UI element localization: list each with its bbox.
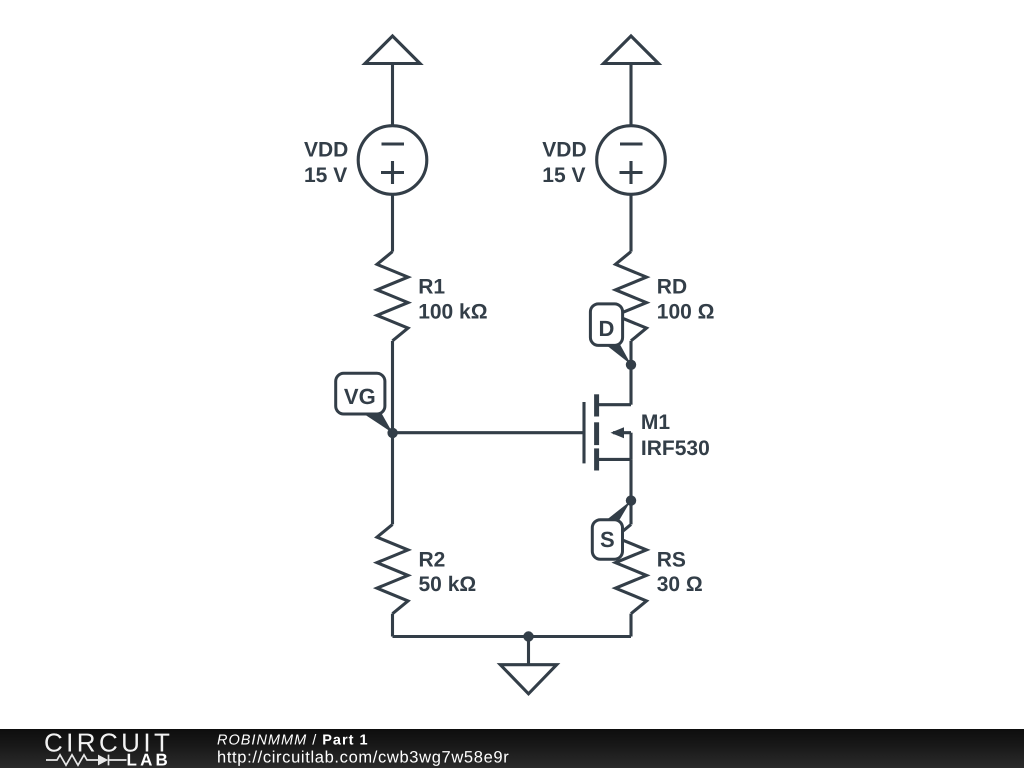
label RD 100 Ohm	[657, 276, 715, 324]
svg-text:LAB: LAB	[127, 751, 172, 768]
node D junction dot	[626, 360, 636, 370]
svg-text:http://circuitlab.com/cwb3wg7w: http://circuitlab.com/cwb3wg7w58e9r	[217, 749, 509, 767]
wire drain lead	[629, 365, 632, 405]
wire	[391, 433, 394, 524]
svg-text:M1: M1	[641, 411, 670, 434]
voltage source V1 VDD 15 V (left)	[358, 126, 427, 195]
wire	[629, 614, 632, 637]
node S flag	[592, 501, 631, 560]
svg-text:30 Ω: 30 Ω	[657, 573, 703, 596]
wire	[391, 614, 394, 637]
svg-text:D: D	[599, 316, 615, 341]
label R1 100 kOhm	[418, 276, 487, 324]
svg-text:VDD: VDD	[304, 138, 348, 161]
wire bottom rail	[393, 635, 632, 638]
power flag VDD (right)	[604, 36, 659, 64]
wire	[629, 500, 632, 524]
svg-text:ROBINMMM / Part 1: ROBINMMM / Part 1	[217, 732, 369, 748]
voltage source V2 VDD 15 V (right)	[597, 126, 666, 195]
label R2 50 kOhm	[419, 548, 477, 596]
wire	[629, 64, 632, 127]
ground	[500, 637, 556, 694]
transistor M1 IRF530	[584, 394, 631, 470]
svg-text:IRF530: IRF530	[641, 437, 710, 460]
resistor R2	[377, 524, 408, 613]
svg-text:R1: R1	[418, 276, 445, 299]
ground junction dot	[523, 631, 533, 641]
node S junction dot	[626, 495, 636, 505]
node VG flag	[336, 373, 393, 433]
svg-text:S: S	[600, 527, 615, 552]
wire source lead	[629, 459, 632, 500]
label RS 30 Ohm	[657, 548, 703, 596]
wire	[391, 194, 394, 251]
resistor R1	[377, 252, 408, 341]
CircuitLab logo resistor-diode squiggle	[46, 755, 127, 766]
label M1 IRF530	[641, 411, 710, 460]
svg-text:15 V: 15 V	[304, 164, 347, 187]
svg-text:100 Ω: 100 Ω	[657, 300, 715, 323]
resistor RD	[616, 252, 647, 341]
svg-text:R2: R2	[419, 548, 446, 571]
node D flag	[590, 304, 631, 365]
svg-text:RS: RS	[657, 548, 686, 571]
wire VG node to gate	[393, 431, 585, 434]
node VG junction dot	[387, 428, 397, 438]
svg-text:RD: RD	[657, 276, 687, 299]
wire	[629, 341, 632, 365]
label V1 VDD 15 V	[304, 138, 348, 187]
svg-text:100 kΩ: 100 kΩ	[418, 300, 487, 323]
resistor RS	[616, 524, 647, 613]
wire	[629, 194, 632, 251]
wire	[391, 64, 394, 127]
power flag VDD (left)	[365, 36, 420, 64]
svg-text:VDD: VDD	[542, 138, 586, 161]
wire	[391, 341, 394, 433]
label V2 VDD 15 V	[542, 138, 586, 187]
svg-text:15 V: 15 V	[542, 164, 585, 187]
svg-text:VG: VG	[344, 384, 376, 409]
svg-text:50 kΩ: 50 kΩ	[419, 573, 477, 596]
footer bar	[0, 729, 1024, 768]
